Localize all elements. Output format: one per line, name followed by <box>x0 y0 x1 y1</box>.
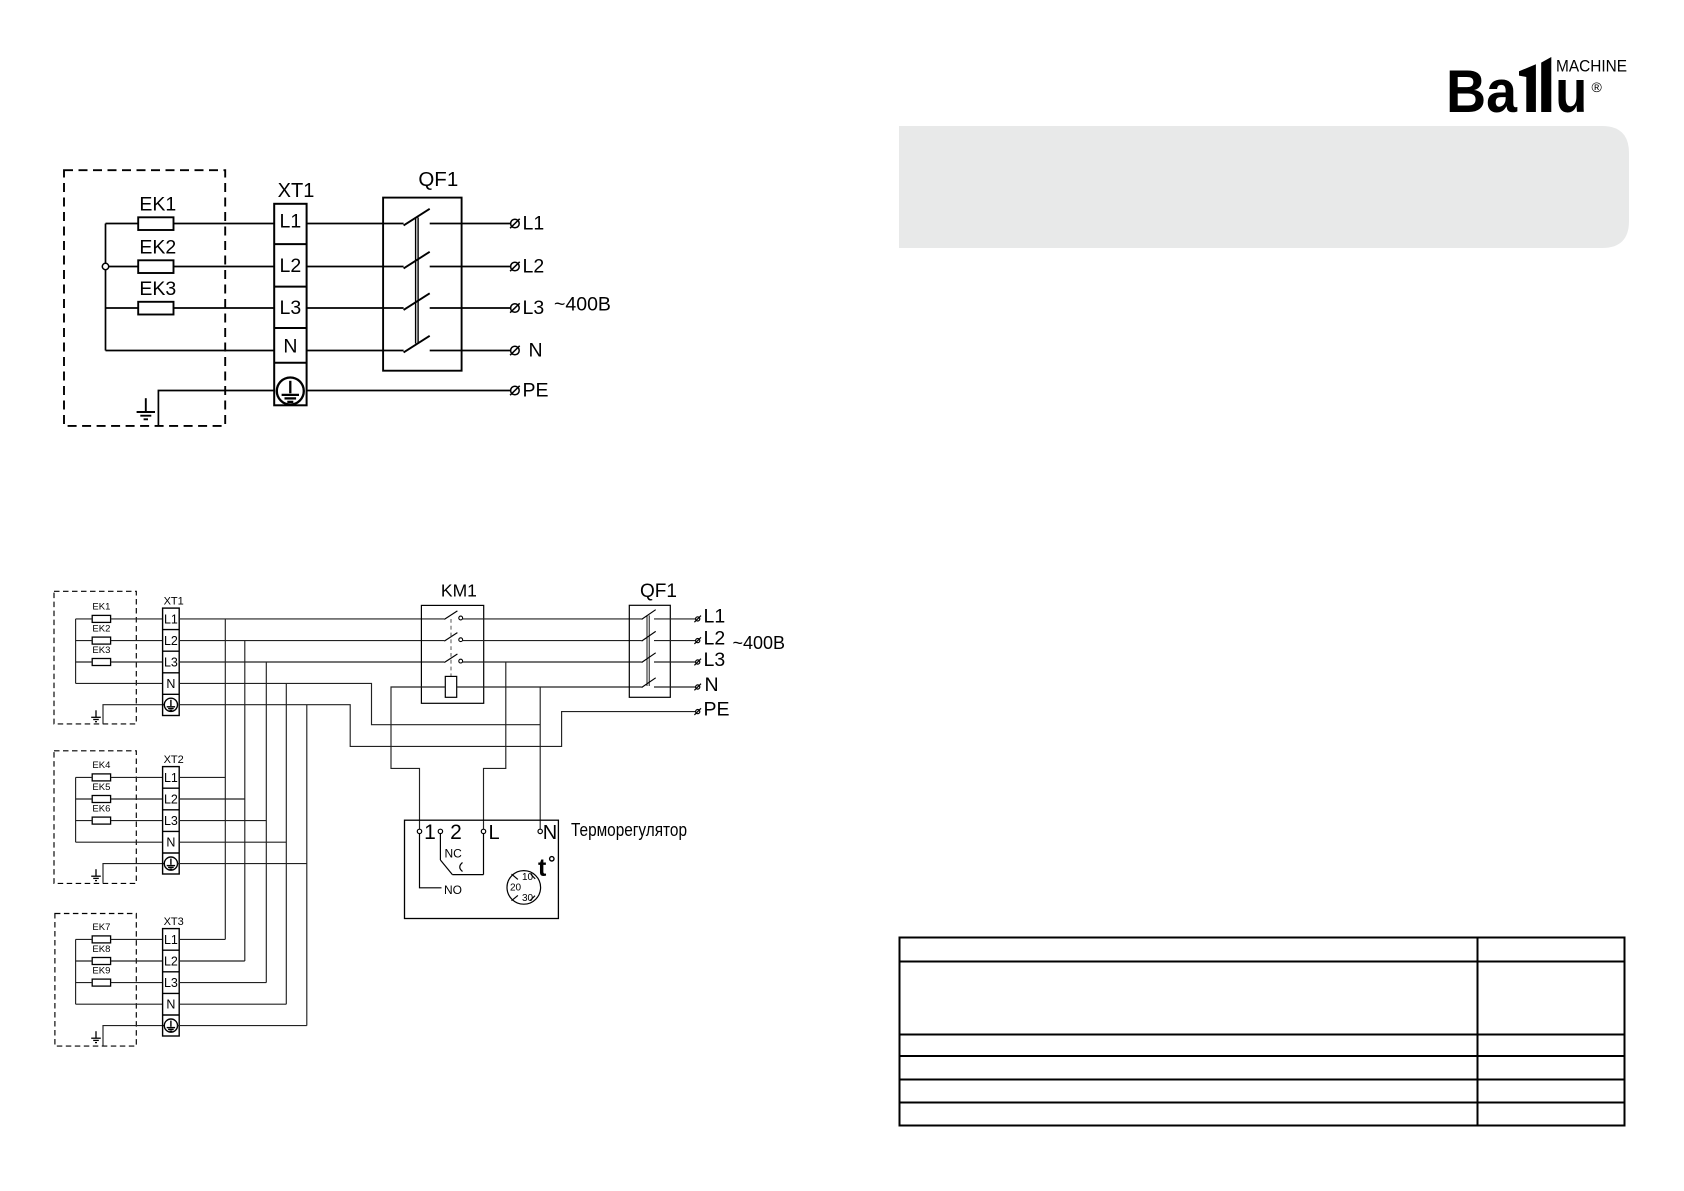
ground symbol in enclosure top <box>137 398 155 419</box>
svg-text:L2: L2 <box>164 955 178 969</box>
XT1 pins <box>164 612 178 691</box>
wire EK3 <box>76 661 163 663</box>
wire EK1 <box>76 618 163 620</box>
resistor EK9 <box>92 979 110 986</box>
KM1 linkage (dashed) <box>450 619 452 676</box>
wire XT3.L3 to bus <box>179 982 266 984</box>
wire EK2 <box>76 640 163 642</box>
wire N group1 <box>76 682 163 684</box>
svg-text:N: N <box>543 822 557 844</box>
QF1 pole L1 blade <box>404 209 430 226</box>
wire XT2.PE to bus <box>178 863 307 865</box>
wire KM1 out L1 to QF1 <box>463 618 642 620</box>
resistor EK2 <box>92 637 110 644</box>
svg-text:L3: L3 <box>164 976 178 990</box>
svg-text:10: 10 <box>522 872 534 883</box>
QF1 pole L2 blade <box>404 252 430 269</box>
svg-text:L3: L3 <box>704 649 726 671</box>
wire EK3 to XT1.L3 <box>174 307 275 309</box>
thermostat box <box>405 820 559 918</box>
resistor EK6 <box>92 817 110 824</box>
svg-text:EK8: EK8 <box>92 944 110 955</box>
svg-text:EK2: EK2 <box>92 623 110 634</box>
svg-text:Терморегулятор: Терморегулятор <box>571 820 687 840</box>
wire XT2.L3 to bus <box>179 820 266 822</box>
wire N bus to XT1.N <box>106 350 275 352</box>
bus wire group1 <box>75 619 77 684</box>
svg-text:30: 30 <box>522 893 534 904</box>
svg-text:XT1: XT1 <box>164 595 184 607</box>
svg-text:EK7: EK7 <box>92 922 110 933</box>
svg-text:~400B: ~400B <box>733 633 786 653</box>
svg-text:EK4: EK4 <box>92 760 110 771</box>
wire EK2 left <box>109 266 139 268</box>
svg-text:EK3: EK3 <box>92 645 110 656</box>
KM1 contact 1 <box>444 611 462 620</box>
vertical bus PE <box>306 705 308 1026</box>
XT3 pins <box>164 933 178 1012</box>
svg-text:L1: L1 <box>164 612 178 626</box>
wire XT1.PE routing to PE terminal <box>179 705 695 747</box>
svg-text:QF1: QF1 <box>418 168 458 191</box>
dial <box>507 871 541 905</box>
wire KM1 out L2 to QF1 <box>463 640 642 642</box>
wire QF1 out L2 <box>654 640 696 642</box>
svg-text:L1: L1 <box>704 606 726 628</box>
svg-text:L1: L1 <box>164 771 178 785</box>
ground symbol group3 <box>91 1031 101 1042</box>
wire thermostat L tap from L3 <box>484 662 506 829</box>
svg-text:NC: NC <box>445 847 463 861</box>
svg-text:N: N <box>166 836 175 850</box>
QF1 linkage bar (bottom) <box>647 615 649 686</box>
svg-text:L2: L2 <box>164 634 178 648</box>
svg-text:L2: L2 <box>280 255 302 277</box>
resistor EK1 <box>138 217 173 230</box>
svg-text:EK2: EK2 <box>139 236 176 258</box>
svg-text:Ba: Ba <box>1446 58 1518 125</box>
terminal N (bottom) <box>694 684 701 691</box>
vertical bus L3 <box>265 662 267 983</box>
KM1 contact 2 <box>444 633 462 642</box>
bus wire group3 <box>75 939 77 1004</box>
svg-text:N: N <box>283 335 297 357</box>
svg-text:XT2: XT2 <box>164 754 184 766</box>
svg-text:XT1: XT1 <box>278 180 315 202</box>
Ballu logo wordmark <box>1446 57 1627 125</box>
wire KM1 out L3 to QF1 <box>463 661 642 663</box>
XT1 PE terminal <box>277 378 304 405</box>
svg-text:N: N <box>705 674 719 696</box>
bottom diagram right part: KM1, QF1, thermostat <box>179 580 785 918</box>
terminal L1 (bottom) <box>694 616 701 623</box>
ground symbol group1 <box>91 710 101 721</box>
wire QF1 out L3 <box>430 307 512 309</box>
heater enclosure 3 (dashed) <box>55 914 136 1047</box>
wire PE group2 <box>103 864 164 883</box>
node on EK2 line <box>102 263 108 269</box>
resistor EK8 <box>92 958 110 965</box>
resistor EK5 <box>92 796 110 803</box>
empty table bottom right <box>900 938 1625 1126</box>
svg-text:PE: PE <box>704 698 730 720</box>
wire XT1.L1 to QF1 <box>307 223 404 225</box>
thermostat switch wires <box>420 834 484 888</box>
svg-text:EK9: EK9 <box>92 965 110 976</box>
terminal PE (bottom) <box>694 708 701 715</box>
terminal L2 (bottom) <box>694 637 701 644</box>
svg-text:PE: PE <box>523 380 549 402</box>
svg-text:N: N <box>166 998 175 1012</box>
wire XT3.L2 to bus <box>179 960 245 962</box>
dial numbers <box>510 872 534 904</box>
svg-text:~400B: ~400B <box>554 293 611 315</box>
wire QF1 out L1 <box>654 618 696 620</box>
wire QF1 out L2 <box>430 266 512 268</box>
heater enclosure 1 (dashed) <box>54 591 136 724</box>
XT2 pins <box>164 771 178 850</box>
wire N node down to thermostat N <box>539 687 541 829</box>
svg-text:EK5: EK5 <box>92 782 110 793</box>
thermostat terminal N <box>538 829 542 833</box>
wire QF1 out L1 <box>430 223 512 225</box>
QF1 linkage bar <box>416 218 419 344</box>
wire EK9 <box>76 982 163 984</box>
KM1 contact 3 <box>444 654 462 663</box>
svg-text:NO: NO <box>444 883 462 897</box>
svg-text:N: N <box>166 677 175 691</box>
svg-text:L3: L3 <box>164 814 178 828</box>
thermostat terminal L <box>481 829 485 833</box>
wire EK8 <box>76 960 163 962</box>
NC contact arc <box>460 863 463 872</box>
wire EK1 to XT1.L1 <box>174 223 275 225</box>
svg-text:L3: L3 <box>280 297 302 319</box>
wire XT2.L2 to bus <box>179 798 245 800</box>
wire XT3.L1 to bus <box>179 938 225 940</box>
heater enclosure (dashed) top <box>64 170 225 426</box>
terminal block XT2 <box>163 767 180 874</box>
wire EK5 <box>76 798 163 800</box>
breaker QF1 (bottom) <box>629 605 670 697</box>
svg-text:XT3: XT3 <box>164 916 184 928</box>
wire EK7 <box>76 938 163 940</box>
svg-text:L1: L1 <box>280 211 302 233</box>
svg-text:L1: L1 <box>523 213 545 235</box>
wire N group3 <box>76 1003 163 1005</box>
wire PE group3 <box>103 1026 164 1046</box>
t&#176; symbol <box>538 854 554 882</box>
wire XT1.N to QF1 <box>307 350 404 352</box>
wire XT1.L2 to KM1 <box>179 640 444 642</box>
heater enclosure 2 (dashed) <box>54 751 136 884</box>
ground symbol group2 <box>91 869 101 880</box>
terminal L2 <box>510 262 520 271</box>
wire EK4 <box>76 776 163 778</box>
wire PE from XT1 to enclosure <box>158 391 274 426</box>
wire EK6 <box>76 820 163 822</box>
svg-text:KM1: KM1 <box>441 580 477 600</box>
resistor EK3 <box>92 659 110 666</box>
svg-text:EK1: EK1 <box>92 602 110 613</box>
resistor EK4 <box>92 774 110 781</box>
KM1 coil <box>445 676 456 697</box>
XT1 PE terminal <box>164 698 177 711</box>
terminal L3 (bottom) <box>694 659 701 666</box>
wire XT1.L3 to QF1 <box>307 307 404 309</box>
wire EK1 left <box>106 223 139 225</box>
wire PE group1 <box>103 705 164 724</box>
svg-text:QF1: QF1 <box>640 581 677 602</box>
resistor EK7 <box>92 936 110 943</box>
svg-text:L: L <box>488 822 499 844</box>
XT3 PE terminal <box>164 1019 177 1032</box>
wire XT2.N to bus <box>179 841 286 843</box>
svg-text:EK6: EK6 <box>92 803 110 814</box>
svg-text:MACHINE: MACHINE <box>1556 58 1627 76</box>
terminal block XT1 <box>274 204 306 405</box>
svg-text:L1: L1 <box>164 933 178 947</box>
bus wire group2 <box>75 777 77 842</box>
svg-text:L3: L3 <box>164 656 178 670</box>
svg-text:®: ® <box>1592 79 1603 95</box>
svg-text:20: 20 <box>510 883 522 894</box>
terminal block XT3 <box>163 929 180 1036</box>
QF1 pole N blade <box>642 678 656 688</box>
terminal L1 <box>510 219 520 228</box>
QF1 pole N blade <box>404 336 430 353</box>
wire XT1.L3 to KM1 <box>179 661 444 663</box>
wire XT3.N to bus <box>179 1003 286 1005</box>
vertical bus L1 <box>224 619 226 940</box>
wire XT1.N jog to node <box>179 683 540 724</box>
wire EK2 to XT1.L2 <box>174 266 275 268</box>
wire XT1.L1 to KM1 <box>179 618 444 620</box>
svg-text:EK3: EK3 <box>139 278 176 300</box>
vertical bus L2 <box>244 641 246 961</box>
thermostat terminal 1 <box>417 829 421 833</box>
wire XT1.L2 to QF1 <box>307 266 404 268</box>
svg-text:2: 2 <box>450 821 462 844</box>
svg-text:L2: L2 <box>523 256 545 278</box>
resistor EK1 <box>92 615 110 622</box>
bus wire left (EK common) <box>105 224 107 351</box>
terminal L3 <box>510 303 520 312</box>
svg-text:EK1: EK1 <box>139 194 176 216</box>
terminal PE <box>510 386 520 395</box>
wire QF1 out N <box>430 350 512 352</box>
vertical bus N <box>285 683 287 1004</box>
wire EK3 left <box>106 307 139 309</box>
thermostat terminal 2 <box>438 829 442 833</box>
svg-text:N: N <box>529 340 543 362</box>
wire QF1 out L3 <box>654 661 696 663</box>
svg-text:L2: L2 <box>164 793 178 807</box>
wire XT3.PE to bus <box>178 1025 307 1027</box>
svg-text:t: t <box>538 854 547 882</box>
XT2 PE terminal <box>164 857 177 870</box>
breaker QF1 <box>383 198 462 371</box>
wire N group2 <box>76 841 163 843</box>
resistor EK2 <box>138 260 173 273</box>
QF1 pole L3 blade <box>404 293 430 310</box>
QF1 pole L1 blade <box>642 610 656 620</box>
wire PE to terminal <box>307 390 512 392</box>
wire XT2.L1 to bus <box>179 776 225 778</box>
wire coil left to thermostat terminal 1 <box>391 687 445 829</box>
contactor KM1 <box>421 605 483 703</box>
QF1 pole L3 blade <box>642 653 656 663</box>
svg-text:1: 1 <box>424 821 436 844</box>
terminal N <box>510 346 520 355</box>
terminal block XT1 <box>163 608 180 715</box>
QF1 pole L2 blade <box>642 631 656 641</box>
wire QF1 out N <box>654 686 696 688</box>
resistor EK3 <box>138 302 173 315</box>
svg-text:L2: L2 <box>704 627 726 649</box>
svg-text:L3: L3 <box>523 297 545 319</box>
wire coil right / N to QF1 <box>457 686 642 688</box>
grey rounded banner <box>899 126 1629 248</box>
